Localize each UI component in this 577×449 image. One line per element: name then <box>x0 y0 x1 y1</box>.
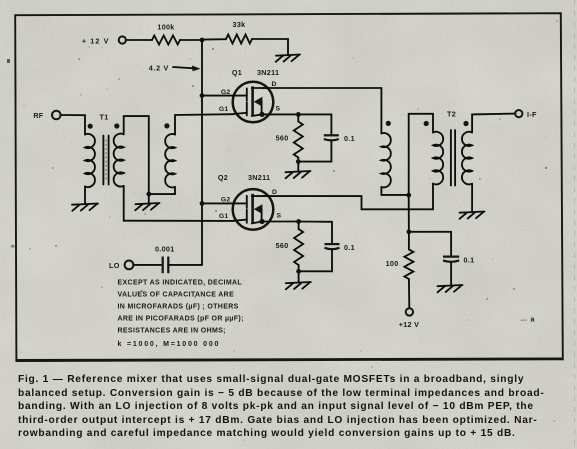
svg-text:IN MICROFARADS (µF) ; OTHERS: IN MICROFARADS (µF) ; OTHERS <box>118 303 239 310</box>
wire <box>297 114 299 121</box>
node decoupling junction <box>407 229 412 234</box>
node Q1 G2 junction <box>200 93 205 98</box>
svg-text:VALUES OF CAPACITANCE ARE: VALUES OF CAPACITANCE ARE <box>118 291 235 298</box>
wire (third winding bottom) <box>174 187 176 194</box>
node Q1 source junction <box>296 112 301 117</box>
wire <box>299 249 332 271</box>
wire <box>409 232 451 257</box>
svg-text:G2: G2 <box>221 197 231 204</box>
wire <box>297 162 299 171</box>
capacitor C1 0.1 (Q1 bypass) <box>324 135 339 140</box>
node 4.2V annotation <box>149 63 201 72</box>
ground (T2 secondary) <box>460 212 485 219</box>
capacitor C2 0.1 (Q2 bypass) <box>325 244 340 249</box>
svg-text:560: 560 <box>276 241 289 250</box>
T2 primary winding A <box>381 133 390 187</box>
capacitor C3 0.001 (LO coupling) <box>163 257 169 274</box>
wire <box>168 264 202 266</box>
svg-text:G1: G1 <box>219 106 229 113</box>
node T1 return junction <box>146 192 151 197</box>
transistor Q1 3N211 <box>233 82 274 123</box>
wire <box>298 114 331 135</box>
resistor R1 100k <box>152 36 180 45</box>
resistor R2 33k <box>226 35 252 44</box>
svg-text:+12 V: +12 V <box>399 320 419 329</box>
svg-text:3N211: 3N211 <box>257 68 279 77</box>
svg-text:G1: G1 <box>219 213 229 220</box>
svg-text:RF: RF <box>33 111 43 120</box>
node T2 center tap <box>406 193 411 198</box>
ground (supply bypass) <box>438 285 463 292</box>
resistor R3 560 (Q1 source) <box>294 122 303 158</box>
wire <box>84 187 86 204</box>
wire (center tap down) <box>408 195 410 232</box>
ground (Q2 source network) <box>286 282 311 289</box>
wire <box>408 232 410 250</box>
svg-text:S: S <box>277 213 282 220</box>
node Q2 source bypass bottom <box>296 269 301 274</box>
wire <box>299 222 332 245</box>
svg-text:Q2: Q2 <box>218 173 228 182</box>
svg-text:+ 12 V: + 12 V <box>82 36 110 45</box>
ground (T1 return) <box>135 203 159 210</box>
T1 third winding (link) <box>165 134 175 188</box>
resistor R5 100 <box>404 249 413 279</box>
svg-text:RESISTANCES ARE IN OHMS;: RESISTANCES ARE IN OHMS; <box>118 328 226 335</box>
ground (T1 primary) <box>72 204 98 211</box>
svg-text:LO: LO <box>109 261 120 270</box>
svg-text:0.1: 0.1 <box>464 256 475 265</box>
svg-text:0.1: 0.1 <box>344 243 355 252</box>
wire <box>148 194 150 202</box>
wire <box>126 39 152 41</box>
wire <box>134 264 162 266</box>
page edge line <box>574 0 576 449</box>
T2 primary winding B <box>433 132 443 185</box>
svg-text:D: D <box>272 81 277 88</box>
wire (T1 secondary top to grounded node) <box>124 116 149 194</box>
wire (Q2 source) <box>262 221 299 223</box>
wire <box>408 279 410 308</box>
node +12V supply (bottom) <box>406 308 413 315</box>
node I-F output <box>515 110 522 117</box>
ground (Q1 source network) <box>286 171 311 178</box>
svg-text:33k: 33k <box>233 20 246 29</box>
svg-text:Q1: Q1 <box>232 68 242 77</box>
wire (Q1 drain to T2) <box>262 88 381 133</box>
T1 primary winding <box>85 134 95 187</box>
capacitor C4 0.1 (supply bypass) <box>443 257 459 262</box>
terminal LO <box>125 261 134 270</box>
wire (bias to Q2 G2) <box>202 202 234 204</box>
svg-text:I-F: I-F <box>527 110 537 119</box>
svg-text:EXCEPT AS INDICATED, DECIMAL: EXCEPT AS INDICATED, DECIMAL <box>118 279 243 286</box>
wire (Q2 drain to T2) <box>262 184 433 210</box>
wire <box>149 193 175 195</box>
wire <box>298 141 331 162</box>
svg-text:4.2 V: 4.2 V <box>149 63 169 72</box>
wire <box>298 222 300 230</box>
T2 secondary winding <box>462 132 472 185</box>
wire bias line (100k/33k junction down to LO) <box>201 40 203 265</box>
wire <box>180 39 202 41</box>
T1 core <box>103 136 108 185</box>
ground (below 33k) <box>276 55 300 62</box>
wire <box>381 187 408 195</box>
svg-text:ARE IN PICOFARADS (pF OR µµF);: ARE IN PICOFARADS (pF OR µµF); <box>118 316 244 323</box>
terminal RF <box>52 111 61 120</box>
svg-text:D: D <box>272 189 277 196</box>
note units text block <box>118 279 244 348</box>
svg-text:100k: 100k <box>157 23 174 32</box>
svg-text:S: S <box>276 106 281 113</box>
wire <box>252 39 288 54</box>
border frame (decorative, not labelled further) <box>15 13 563 361</box>
wire <box>450 262 452 285</box>
svg-text:560: 560 <box>276 134 289 143</box>
node Q2 G2 junction <box>200 201 205 206</box>
svg-text:0.1: 0.1 <box>344 134 355 143</box>
wire (T1 secondary bottom to Q2 G1) <box>124 186 234 221</box>
T1 secondary winding <box>114 134 124 187</box>
wire <box>202 38 226 40</box>
wire <box>298 271 300 281</box>
wire (Q1 source) <box>262 113 298 115</box>
wire <box>61 115 85 135</box>
svg-text:0.001: 0.001 <box>155 245 175 254</box>
wire (third winding top to Q1 G1) <box>175 114 234 134</box>
transistor Q2 3N211 <box>233 189 274 230</box>
node Q1 source bypass bottom <box>296 159 301 164</box>
resistor R4 560 (Q2 source) <box>294 229 303 265</box>
T2 core <box>451 130 455 186</box>
svg-text:100: 100 <box>386 259 399 268</box>
wire (center tap riser) <box>409 114 433 195</box>
wire <box>471 184 473 211</box>
wire (bias to Q1 G2) <box>202 95 234 97</box>
svg-text:k =1000, M=1000 000: k =1000, M=1000 000 <box>118 341 221 348</box>
wire (T2 secondary top to I-F) <box>472 114 515 133</box>
stray scan mark <box>521 317 535 324</box>
svg-text:3N211: 3N211 <box>248 173 270 182</box>
svg-text:T1: T1 <box>100 113 109 122</box>
node bias junction <box>200 38 205 43</box>
svg-text:T2: T2 <box>447 110 456 119</box>
node Q2 source junction <box>296 219 301 224</box>
svg-text:a: a <box>531 317 535 324</box>
